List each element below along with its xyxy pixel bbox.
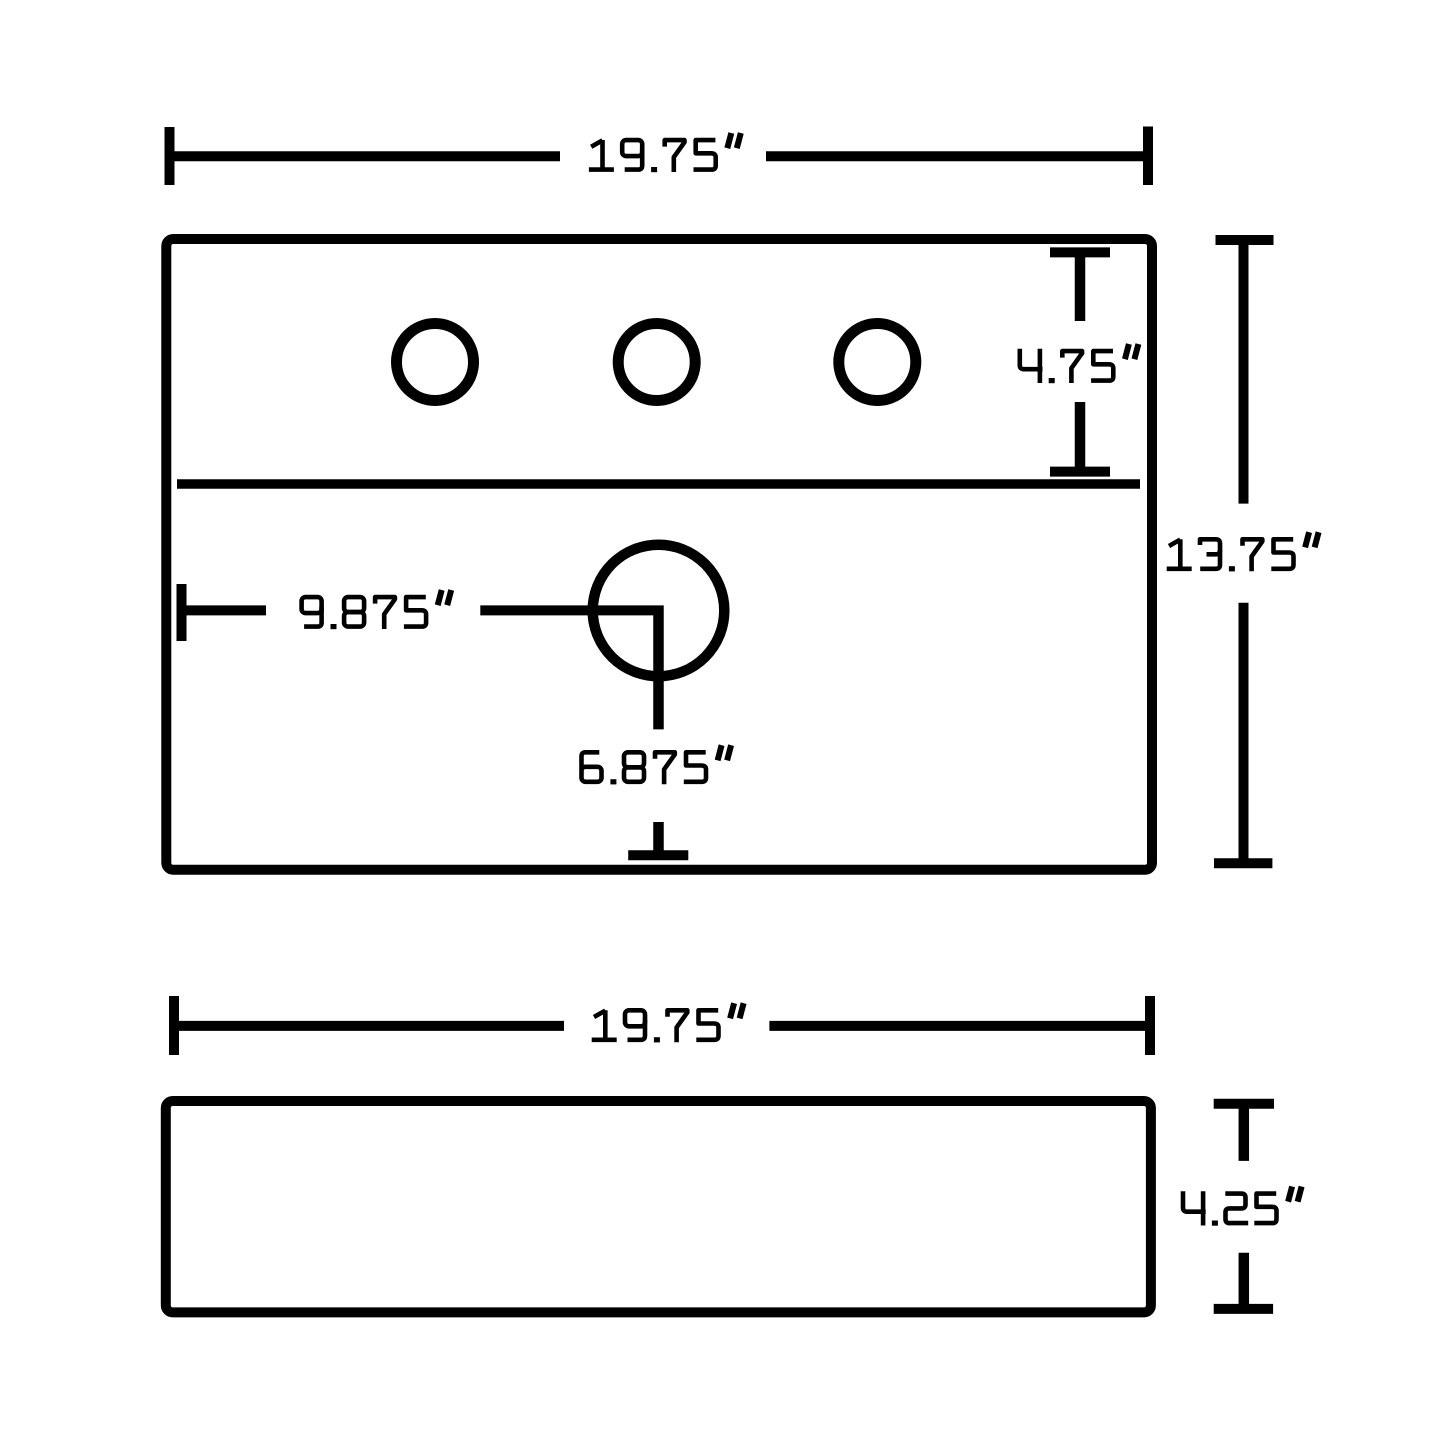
drain depth dimension bottom cap [628, 850, 688, 860]
center faucet hole [618, 324, 695, 401]
width dimension line left segment (top view) [170, 151, 561, 161]
drain offset dimension line left segment [182, 605, 267, 615]
overall depth dimension lower segment [1239, 603, 1249, 864]
width dimension line right segment (side view) [769, 1021, 1150, 1031]
width dimension label 19.75" (side view) [592, 1003, 744, 1042]
width dimension line left segment (side view) [174, 1021, 564, 1031]
drain hole [593, 545, 725, 677]
side height dimension lower stem [1239, 1253, 1250, 1308]
drain depth label 6.875" [582, 745, 732, 784]
deck depth dimension bottom cap [1050, 467, 1110, 477]
drain offset label 9.875" [302, 590, 452, 629]
deck depth dimension lower stem [1075, 402, 1086, 472]
overall depth dimension bottom cap [1214, 858, 1272, 868]
width dimension line right segment (top view) [766, 151, 1148, 161]
width dimension label 19.75" (top view) [589, 133, 741, 172]
overall depth dimension top cap [1216, 235, 1274, 245]
side height dimension upper stem [1239, 1104, 1250, 1161]
sink top view outline [166, 239, 1152, 870]
left faucet hole [397, 324, 474, 401]
width dimension right tick (side view) [1145, 996, 1155, 1055]
sink side view outline [166, 1101, 1151, 1312]
faucet deck divider line [177, 479, 1140, 489]
drain depth dimension lower stem [653, 822, 664, 860]
overall depth dimension upper segment [1239, 240, 1249, 504]
drain depth dimension upper stem [653, 606, 664, 730]
side height dimension bottom cap [1214, 1304, 1273, 1314]
deck depth label 4.75" [1020, 344, 1139, 383]
width dimension right tick (top view) [1143, 127, 1153, 186]
width dimension left tick (side view) [169, 996, 179, 1055]
right faucet hole [839, 324, 916, 401]
deck depth dimension upper stem [1075, 252, 1086, 321]
deck depth dimension top cap [1050, 247, 1110, 257]
drain offset dimension line right segment [480, 605, 663, 615]
side height dimension top cap [1214, 1099, 1274, 1109]
overall depth label 13.75" [1167, 532, 1319, 571]
side height label 4.25" [1183, 1187, 1302, 1226]
width dimension left tick (top view) [165, 127, 175, 185]
drain offset dimension left tick [177, 584, 187, 641]
